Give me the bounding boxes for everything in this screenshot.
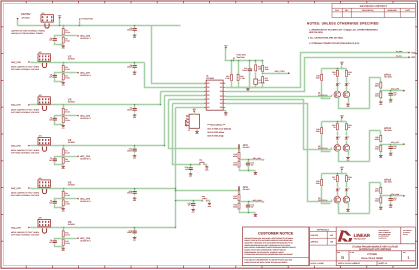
wire U1 to Q3 gates <box>226 104 332 202</box>
jumper JP6 <box>38 217 50 227</box>
svg-text:12V MAX: 12V MAX <box>22 17 31 20</box>
svg-text:450k: 450k <box>233 155 237 158</box>
svg-text:100nF: 100nF <box>127 109 132 112</box>
capacitor C15 <box>389 91 397 97</box>
wire +5.5V rail <box>225 60 263 62</box>
transistor Q1A <box>334 91 341 98</box>
label ADC_CH0 <box>80 35 91 41</box>
svg-text:1uF: 1uF <box>49 39 52 42</box>
ground <box>61 165 65 170</box>
wire <box>59 19 61 26</box>
svg-text:GND: GND <box>254 174 257 176</box>
wire <box>63 63 65 66</box>
svg-text:3. INTERNAL POWER FOR ADC/DAC/: 3. INTERNAL POWER FOR ADC/DAC/LEDs IS 5.… <box>309 42 360 45</box>
net flag DAC_CH1 <box>11 104 31 107</box>
test point V7 label <box>79 17 93 20</box>
resistor R12 <box>62 238 70 246</box>
resistor R32 <box>375 91 382 99</box>
wire <box>17 20 19 26</box>
svg-text:1. RESISTORS R1-R12 ARE 0.1% +: 1. RESISTORS R1-R12 ARE 0.1% +/-25ppm, A… <box>309 28 378 31</box>
wire <box>134 105 136 108</box>
wire <box>321 69 323 75</box>
svg-text:LTC Confidential: LTC Confidential <box>403 230 412 232</box>
svg-text:10.0k: 10.0k <box>65 76 69 79</box>
ground at SW1 <box>205 166 209 171</box>
ground <box>189 172 193 177</box>
jumper JP1 power select <box>41 12 53 22</box>
svg-text:GND: GND <box>347 106 350 108</box>
svg-text:GND: GND <box>389 102 392 104</box>
jumper shunt <box>42 63 46 68</box>
wire <box>346 132 348 136</box>
resistor R34 <box>375 196 382 204</box>
svg-text:DATE: 6-13-2011 3:45PM PF: DATE: 6-13-2011 3:45PM PF <box>338 262 360 265</box>
ground <box>254 213 258 218</box>
svg-text:1uF: 1uF <box>393 94 396 97</box>
ground <box>224 111 228 116</box>
svg-text:NOTES: UNLESS OTHERWISE SPECIF: NOTES: UNLESS OTHERWISE SPECIFIED <box>307 22 379 26</box>
wire <box>249 73 251 88</box>
svg-text:100k: 100k <box>316 130 320 133</box>
svg-text:GND: GND <box>62 211 65 213</box>
node V4 <box>68 138 76 144</box>
capacitor C8 <box>49 199 57 205</box>
LED LED3B <box>345 188 350 192</box>
note text move jumper <box>11 231 40 236</box>
wire +5V rail <box>322 121 347 123</box>
resistor R9 <box>62 190 70 198</box>
wire to ADC_CH7 <box>381 144 404 146</box>
wire <box>262 61 264 65</box>
svg-text:APPLYING EXTERNAL VOLTAGE: APPLYING EXTERNAL VOLTAGE <box>11 111 40 114</box>
wire to C9 <box>55 239 64 240</box>
label ADC_CH2 <box>80 114 91 120</box>
ground <box>133 154 137 159</box>
wire to reset cluster A <box>173 104 200 165</box>
svg-text:REVISION HISTORY: REVISION HISTORY <box>360 5 388 8</box>
svg-text:GND: GND <box>379 157 382 159</box>
jumper JP5 <box>38 177 50 187</box>
wire U1 to Q2 gates <box>226 100 332 150</box>
node GPIO2 <box>384 127 393 132</box>
wire to ADC_CH1 <box>64 72 77 74</box>
jumper shunt <box>42 189 46 194</box>
svg-text:ARE 1% 0603.: ARE 1% 0603. <box>309 31 323 34</box>
ground <box>389 98 393 103</box>
ground <box>133 236 137 241</box>
svg-text:GND: GND <box>62 85 65 87</box>
approvals table <box>310 227 337 266</box>
power flag +5V <box>192 108 196 112</box>
svg-text:200k: 200k <box>233 206 237 209</box>
wire to ADC_CH0 <box>64 35 77 37</box>
wire <box>197 129 199 130</box>
wire net I2C_SCL <box>226 58 410 92</box>
svg-text:LTC2936 PROGRAMMABLE HEX VOLTA: LTC2936 PROGRAMMABLE HEX VOLTAGE <box>352 246 399 249</box>
wire GPI1 to U1 pin <box>169 99 205 101</box>
jumper shunt <box>42 106 46 111</box>
net flag ADC_CH2 <box>76 115 78 117</box>
wire <box>231 82 233 88</box>
svg-text:100k: 100k <box>375 200 379 203</box>
resistor R19 <box>233 151 240 159</box>
wire to ADC_CH6 <box>381 90 404 92</box>
wire <box>346 141 348 145</box>
wire <box>341 119 343 122</box>
wire <box>240 169 256 171</box>
node V2 <box>68 54 76 60</box>
svg-text:100nF: 100nF <box>242 69 247 72</box>
wire <box>380 131 382 136</box>
wire <box>55 206 64 208</box>
svg-text:1uF: 1uF <box>393 199 396 202</box>
svg-text:10.0k: 10.0k <box>65 40 69 43</box>
wire <box>79 21 81 26</box>
LED LED2A <box>336 136 341 140</box>
ground <box>61 124 65 129</box>
net flag V1 <box>17 18 19 20</box>
wire <box>248 209 250 213</box>
wire <box>348 150 350 156</box>
svg-text:TECHNOLOGY: TECHNOLOGY <box>354 238 367 241</box>
wire <box>63 105 65 109</box>
capacitor C16 <box>389 145 397 151</box>
capacitor C4 <box>127 106 137 112</box>
wire <box>55 122 64 125</box>
wire gate <box>322 135 331 152</box>
wire V4 to U1 pin <box>165 95 205 97</box>
transistor Q3A <box>334 196 341 203</box>
net flag ADC_CH8 <box>403 195 405 197</box>
svg-text:SUPERVISOR WITH EEPROM: SUPERVISOR WITH EEPROM <box>359 248 391 251</box>
wire net V1 rail <box>18 25 181 27</box>
svg-text:1k: 1k <box>348 73 350 76</box>
LED LED1A <box>336 83 341 87</box>
ground <box>389 203 393 208</box>
wire net V4 <box>31 145 165 147</box>
svg-text:GND: GND <box>62 127 65 129</box>
svg-text:1k: 1k <box>348 126 350 129</box>
svg-text:100nF: 100nF <box>127 29 132 32</box>
net flag SCL <box>408 56 410 58</box>
svg-text:100k: 100k <box>265 79 269 82</box>
ground <box>346 208 350 213</box>
svg-text:1k: 1k <box>333 178 335 181</box>
svg-text:10.0k: 10.0k <box>65 160 69 163</box>
svg-text:10.0k: 10.0k <box>65 202 69 205</box>
power flag +5V GPIO2 <box>340 114 344 118</box>
svg-text:ADC_CH10: ADC_CH10 <box>253 199 262 202</box>
svg-text:DIVIDE BY 3: DIVIDE BY 3 <box>80 117 90 120</box>
svg-text:450k: 450k <box>233 197 237 200</box>
wire U1 to Q1 gates <box>226 95 332 97</box>
wire <box>255 85 257 88</box>
svg-text:200k: 200k <box>265 68 269 71</box>
net flag ADC_CH9 <box>262 159 264 161</box>
wire <box>253 201 264 203</box>
power flag +5V GPIO1 <box>340 61 344 65</box>
wire GPIO bottom <box>339 202 370 214</box>
wire <box>390 145 392 146</box>
svg-text:DAC_CH3: DAC_CH3 <box>11 187 22 190</box>
node GPI2 <box>243 186 251 191</box>
wire <box>239 149 241 153</box>
wire <box>337 192 339 197</box>
label ADC_CH4 <box>80 197 91 203</box>
wire net V2 <box>31 62 145 64</box>
resistor R8 <box>62 156 70 164</box>
note text move jumper <box>11 66 40 71</box>
resistor R33 <box>375 144 382 152</box>
wire <box>193 201 195 203</box>
ground <box>61 81 65 86</box>
wire lower rail <box>232 87 263 89</box>
transistor Q1B <box>343 91 350 98</box>
resistor R5 <box>62 107 70 115</box>
svg-text:1uF: 1uF <box>49 118 52 121</box>
wire to ADC_CH8 <box>381 195 404 197</box>
note text move jumper <box>11 149 40 154</box>
svg-text:*** Slave Address ***: *** Slave Address *** <box>207 124 225 127</box>
svg-text:CUSTOMER NOTICE: CUSTOMER NOTICE <box>258 232 294 236</box>
wire to ADC_CH13 <box>263 73 289 75</box>
capacitor C3 <box>127 64 137 70</box>
svg-text:100nF: 100nF <box>127 192 132 195</box>
customer notice box <box>243 227 309 266</box>
ground <box>254 171 258 176</box>
wire <box>134 63 136 65</box>
svg-text:For Customer: For Customer <box>403 232 411 234</box>
ground <box>133 197 137 202</box>
wire to C7 <box>55 157 64 159</box>
svg-text:4V MAX: 4V MAX <box>68 58 76 61</box>
svg-text:Use Only: Use Only <box>403 234 408 236</box>
ground <box>61 207 65 212</box>
LED LED1B <box>345 83 350 87</box>
svg-text:APPROVALS: APPROVALS <box>317 228 330 231</box>
svg-text:1.74k: 1.74k <box>240 77 244 80</box>
svg-text:4V MAX: 4V MAX <box>68 184 76 187</box>
wire <box>239 191 241 195</box>
resistor R4 <box>62 73 70 81</box>
wire <box>346 122 348 124</box>
svg-text:1630 McCarthy Blvd.: 1630 McCarthy Blvd. <box>379 230 390 232</box>
svg-text:B: B <box>341 255 344 260</box>
pushbutton SW1 <box>199 160 205 165</box>
wire <box>224 111 226 112</box>
svg-text:DIVIDE BY 3: DIVIDE BY 3 <box>80 200 90 203</box>
wire V2 to U1 pin <box>145 63 205 88</box>
wire <box>63 189 65 192</box>
wire to ADC_CH4 <box>64 198 77 200</box>
node V6 <box>68 220 76 226</box>
wire <box>346 78 348 83</box>
ground <box>61 44 65 49</box>
capacitor C14 <box>246 203 254 209</box>
wire <box>134 146 136 149</box>
capacitor C10 <box>185 166 193 172</box>
svg-text:GND: GND <box>62 250 65 252</box>
net flag DAC_CH0 <box>11 61 31 64</box>
ground <box>61 247 65 252</box>
net flag DAC_CH2 <box>11 144 31 147</box>
wire <box>380 78 382 83</box>
wire GPIO bottom <box>339 150 370 162</box>
label ADC_CH3 <box>80 155 91 161</box>
wire <box>240 211 256 213</box>
svg-text:15V MAX: 15V MAX <box>384 181 393 184</box>
wire +5V rail <box>322 173 347 175</box>
wire to reset cluster B <box>176 200 202 202</box>
wire <box>55 245 64 247</box>
net flag ADC_CH6 <box>403 90 405 92</box>
svg-text:5V MAX: 5V MAX <box>243 146 251 149</box>
wire to ADC_CH3 <box>64 156 77 158</box>
wire GPIO riser <box>370 131 381 162</box>
svg-text:Demo Circuit 1633B: Demo Circuit 1633B <box>361 257 383 260</box>
svg-text:200k: 200k <box>233 164 237 167</box>
wire <box>390 98 392 99</box>
wire V5 to U1 pin <box>176 107 205 109</box>
svg-text:DAC_CH4: DAC_CH4 <box>11 226 22 229</box>
wire <box>134 189 136 191</box>
net flag ADC_CH0 <box>76 35 78 37</box>
svg-text:SDA: SDA <box>411 52 416 55</box>
wire GPIO riser <box>370 78 381 109</box>
svg-text:20.1k: 20.1k <box>65 31 69 34</box>
svg-text:1.74k: 1.74k <box>225 77 229 80</box>
svg-text:APP ENG.: APP ENG. <box>311 241 319 244</box>
resistor R2 <box>62 36 70 44</box>
wire <box>321 174 323 180</box>
svg-text:SW2: SW2 <box>202 196 205 198</box>
svg-text:ADC_CH9: ADC_CH9 <box>253 157 261 160</box>
wire <box>63 26 65 29</box>
wire <box>390 91 392 93</box>
svg-text:100nF: 100nF <box>127 231 132 234</box>
svg-text:APPLYING EXTERNAL VOLTAGE: APPLYING EXTERNAL VOLTAGE <box>11 68 40 71</box>
wire to ADC_CH10 <box>240 201 253 203</box>
jumper JP2 <box>38 51 50 61</box>
svg-text:GND: GND <box>133 200 136 202</box>
wire <box>134 26 136 28</box>
U1 pins <box>204 83 225 108</box>
ground <box>246 87 250 92</box>
svg-text:Test Point: Test Point <box>236 56 245 59</box>
capacitor C13 <box>246 161 254 167</box>
wire <box>233 60 235 61</box>
wire <box>337 174 339 176</box>
wire <box>255 73 257 80</box>
svg-text:DIVIDE BY 3: DIVIDE BY 3 <box>80 74 90 77</box>
net flag ADC_CH7 <box>403 143 405 145</box>
svg-text:450k: 450k <box>375 85 379 88</box>
svg-text:1uF: 1uF <box>251 205 254 208</box>
svg-text:1uF: 1uF <box>251 163 254 166</box>
svg-text:SW1: SW1 <box>199 160 202 162</box>
svg-text:J1: J1 <box>188 129 190 132</box>
net flag SDA <box>408 52 410 54</box>
wire <box>63 146 65 150</box>
resistor R10 <box>62 199 70 207</box>
customer notice body text <box>244 237 295 256</box>
resistor R24 <box>345 69 351 77</box>
svg-text:GND: GND <box>389 207 392 209</box>
wire net V5 <box>31 188 176 190</box>
wire V3 riser <box>160 92 162 105</box>
net flag ADC_CH5 <box>76 237 78 239</box>
wire to GPI2 <box>176 190 240 192</box>
svg-text:1k: 1k <box>348 178 350 181</box>
capacitor C7 <box>49 157 57 163</box>
wire <box>249 61 251 69</box>
wire <box>231 61 233 75</box>
resistor R14 <box>237 73 245 81</box>
svg-text:DAC_CH0: DAC_CH0 <box>11 61 22 64</box>
ground <box>346 103 350 108</box>
resistor R22 <box>233 202 240 210</box>
resistor R21 <box>233 160 240 168</box>
jumper shunt <box>42 228 46 233</box>
wire <box>247 87 249 89</box>
label Q1 <box>318 92 328 97</box>
wire <box>341 171 343 174</box>
wire to C5 <box>55 73 64 75</box>
wire <box>337 141 339 145</box>
svg-text:APPLYING EXTERNAL VOLTAGE: APPLYING EXTERNAL VOLTAGE <box>11 233 40 236</box>
svg-text:1k: 1k <box>333 73 335 76</box>
resistor R6 <box>62 116 70 124</box>
svg-text:100k: 100k <box>375 94 379 97</box>
node GPIO3 <box>384 179 393 184</box>
svg-text:GND: GND <box>62 48 65 50</box>
wire <box>262 84 264 88</box>
svg-text:www.linear.com: www.linear.com <box>379 238 387 240</box>
power flag +5V <box>224 45 228 49</box>
svg-text:ADC_CH6: ADC_CH6 <box>391 88 399 91</box>
svg-text:GND: GND <box>189 176 192 178</box>
transistor Q3B <box>343 196 350 203</box>
svg-text:APPLYING EXTERNAL VOLTAGE: APPLYING EXTERNAL VOLTAGE <box>11 152 40 155</box>
capacitor C18 <box>127 147 137 153</box>
svg-text:GND: GND <box>133 239 136 241</box>
wire <box>380 183 382 188</box>
svg-text:1uF: 1uF <box>49 202 52 205</box>
resistor R27 <box>332 174 338 182</box>
svg-text:20.1k: 20.1k <box>65 111 69 114</box>
wire <box>337 122 339 124</box>
node V3 <box>68 97 76 103</box>
node GPIO1 <box>384 73 393 78</box>
svg-text:APPROVED: APPROVED <box>388 9 398 12</box>
ground <box>191 208 195 213</box>
svg-text:SHEET: 1/1: SHEET: 1/1 <box>379 262 388 265</box>
capacitor C12 <box>242 67 252 73</box>
net flag ADC_CH3 <box>76 155 78 157</box>
wire to GPI1 <box>169 100 240 149</box>
wire <box>194 113 196 115</box>
wire V5 V6 riser <box>175 108 177 228</box>
wire <box>390 203 392 204</box>
svg-text:2. ALL CAPACITORS ARE 16V 0603: 2. ALL CAPACITORS ARE 16V 0603. <box>308 37 344 40</box>
capacitor C20 <box>127 229 137 235</box>
svg-text:450k: 450k <box>375 138 379 141</box>
revision history table <box>332 3 415 17</box>
resistor R15 <box>262 64 269 72</box>
svg-text:10.0k: 10.0k <box>65 242 69 245</box>
net flag DAC_CH3 <box>11 187 31 190</box>
svg-text:ADC_CH7: ADC_CH7 <box>391 141 399 144</box>
